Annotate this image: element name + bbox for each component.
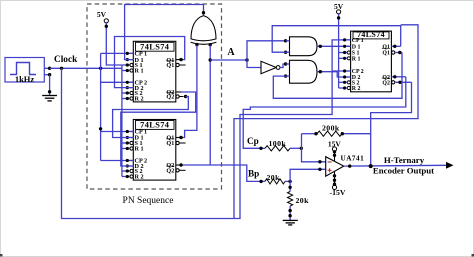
svg-text:Clock: Clock — [54, 55, 78, 65]
wire U1 Q2bar to U2 D1 route — [113, 97, 189, 138]
wire inverter out to AND2 input — [280, 64, 286, 68]
wire U1 Q1 stub — [176, 58, 183, 61]
wire A down to inverter — [247, 60, 261, 68]
wire op-amp output — [344, 164, 446, 168]
AND gate G4 (Bp) — [284, 60, 317, 83]
resistor R3 20k (Bp) — [259, 173, 291, 184]
wire 200k right to output — [370, 134, 372, 166]
wire Clock horizontal — [50, 67, 122, 70]
wire feedback Q2 to Cp — [243, 77, 406, 149]
wire source to ground — [48, 75, 51, 96]
svg-text:R 1: R 1 — [135, 68, 144, 75]
wire U1 Q2 to U2 D2 route — [121, 92, 196, 166]
label H-Ternary Encoder Output — [373, 155, 434, 176]
svg-text:Q2: Q2 — [166, 168, 174, 175]
svg-text:Cp: Cp — [247, 136, 259, 146]
label UA741 — [341, 155, 365, 163]
resistor R1 100k — [259, 139, 303, 151]
wire AND1 output to U3 D1 — [317, 45, 351, 48]
svg-text:UA741: UA741 — [341, 155, 365, 163]
label PN Sequence — [123, 196, 174, 206]
wire U3 Q2bar stub — [392, 81, 412, 84]
svg-text:100k: 100k — [269, 139, 287, 148]
svg-text:CP 1: CP 1 — [352, 38, 364, 44]
svg-text:R 2: R 2 — [135, 174, 144, 181]
power -15V — [329, 171, 345, 197]
svg-text:5V: 5V — [97, 10, 107, 19]
ground GND1 — [42, 96, 57, 101]
power 5V (right) — [334, 2, 344, 14]
wire 5V right to set/reset pins — [337, 14, 345, 88]
svg-text:200k: 200k — [322, 123, 340, 132]
wire U2 Q2bar free stub — [176, 169, 186, 172]
power 5V (left) — [97, 10, 108, 23]
wire 200k left to minus input — [302, 134, 326, 164]
ground GND2 — [283, 220, 298, 225]
wire XOR output to D1 of U1 — [125, 5, 206, 60]
wire feedback Q1bar to AND2 — [273, 53, 402, 99]
svg-text:Q1: Q1 — [166, 140, 174, 147]
label Cp — [247, 136, 259, 146]
wire AND2 output to U3 D2 — [317, 70, 351, 77]
wire U2 Q1 stub — [176, 136, 183, 139]
wire pullup bus FF1/FF2 set-reset — [122, 65, 133, 177]
svg-text:Q1: Q1 — [382, 51, 390, 57]
wire U1 Q1bar free stub — [176, 63, 186, 66]
wire U2 Q2 to node A vertical — [183, 164, 210, 166]
svg-text:R 1: R 1 — [352, 57, 361, 63]
wire clock branch CP2 of U3 — [332, 70, 351, 72]
wire clock to CP pins FF1 FF2 — [99, 53, 133, 160]
wire feedback Q1 to AND1 — [272, 26, 401, 53]
label A — [227, 47, 235, 58]
svg-text:H-Ternary: H-Ternary — [384, 155, 425, 165]
svg-text:PN Sequence: PN Sequence — [123, 196, 174, 206]
svg-text:Bp: Bp — [248, 169, 259, 179]
svg-text:Q1: Q1 — [382, 45, 390, 51]
svg-text:Q2: Q2 — [166, 94, 174, 101]
svg-text:R 2: R 2 — [135, 96, 144, 103]
wire U2 Q1 to XOR input 1 — [183, 45, 197, 137]
wire A net to Bp — [210, 165, 261, 181]
IC U2 74LS74 (PN stage 3-4) — [126, 120, 179, 181]
XOR gate G1 — [191, 16, 217, 47]
wire A up to AND1 input — [247, 41, 286, 60]
dashed box PN Sequence — [87, 4, 222, 189]
svg-text:A: A — [227, 47, 235, 58]
svg-text:1kHz: 1kHz — [15, 74, 35, 84]
wire XOR input 2 / node A vertical — [209, 45, 212, 165]
wire U2 Q1bar free stub — [176, 141, 186, 144]
wire Bp to plus input — [290, 168, 326, 182]
svg-text:R 2: R 2 — [352, 86, 361, 92]
inverter G2 — [261, 61, 280, 73]
power +15V — [328, 139, 342, 161]
svg-text:Q2: Q2 — [382, 81, 390, 87]
svg-text:R 1: R 1 — [135, 146, 144, 153]
wire U1 Q1 over-top to D2 — [115, 37, 185, 88]
wire node A horizontal — [210, 58, 249, 61]
svg-text:20k: 20k — [296, 196, 310, 205]
label Clock — [54, 55, 78, 65]
wire clock bottom run to encoder FF — [62, 40, 351, 219]
wire U3 Q1 stub — [391, 45, 400, 48]
pulse source V1 1kHz — [5, 58, 44, 85]
IC U3 74LS74 (encoder) — [343, 30, 395, 92]
wire U1 Q2 stub — [176, 91, 181, 93]
wire 5V to S1 — [105, 23, 134, 65]
op-amp U4 UA741 — [326, 157, 344, 177]
wire clock output stubs — [44, 67, 51, 77]
AND gate G3 (Cp) — [284, 37, 317, 56]
IC U1 74LS74 (PN stage 1-2) — [126, 41, 179, 102]
label Bp — [248, 169, 259, 179]
wire outer loop bottom-left run — [234, 25, 418, 219]
svg-text:Encoder Output: Encoder Output — [373, 166, 434, 176]
wire U3 Q1bar stub — [392, 51, 402, 54]
wire U3 Q2 stub — [391, 75, 405, 78]
wire U1 Q2bar stub — [176, 95, 187, 98]
arrow output — [446, 162, 454, 169]
svg-text:-15V: -15V — [329, 188, 345, 197]
svg-text:D 1: D 1 — [352, 45, 361, 51]
resistor R4 20k (shunt) — [288, 181, 310, 220]
wire feedback Q2bar to output loop — [371, 82, 412, 133]
wire U2 Q2 stub — [176, 163, 183, 166]
svg-text:20k: 20k — [267, 173, 281, 182]
svg-text:Q1: Q1 — [166, 62, 174, 69]
resistor R2 200k — [302, 123, 371, 136]
